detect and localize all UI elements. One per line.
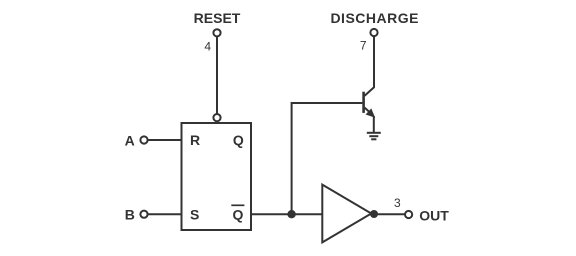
junction dot at buffer output bbox=[370, 210, 378, 218]
buffer U2 triangle bbox=[322, 185, 371, 243]
junction dot on Qbar wire bbox=[287, 210, 295, 218]
wire buffer to OUT bbox=[374, 213, 405, 215]
transistor Q1 emitter bbox=[365, 108, 372, 115]
wire Qbar to buffer bbox=[251, 213, 322, 215]
terminal DISCHARGE (pin 7) bbox=[370, 29, 377, 36]
svg-text:7: 7 bbox=[360, 39, 367, 53]
junction circle at flip-flop top bbox=[213, 114, 220, 121]
svg-text:RESET: RESET bbox=[194, 10, 241, 26]
wire B to S bbox=[148, 213, 182, 215]
transistor Q1 base bar bbox=[362, 92, 365, 113]
svg-text:R: R bbox=[190, 132, 200, 148]
svg-text:DISCHARGE: DISCHARGE bbox=[330, 10, 419, 26]
transistor Q1 collector bbox=[365, 36, 374, 95]
svg-text:3: 3 bbox=[394, 196, 401, 210]
terminal OUT (pin 3) bbox=[405, 211, 412, 218]
svg-text:4: 4 bbox=[204, 40, 211, 54]
terminal B bbox=[140, 211, 147, 218]
Qbar overbar bbox=[231, 204, 244, 206]
wire RESET vertical bbox=[216, 36, 218, 114]
svg-text:B: B bbox=[125, 207, 135, 223]
svg-text:Q: Q bbox=[233, 132, 244, 148]
terminal A bbox=[140, 136, 147, 143]
wire junction to transistor base bbox=[292, 103, 363, 214]
wire emitter to ground bbox=[373, 116, 375, 133]
terminal RESET (pin 4) bbox=[213, 29, 220, 36]
wire A to R bbox=[148, 139, 182, 141]
svg-text:A: A bbox=[125, 133, 135, 149]
svg-text:Q: Q bbox=[233, 207, 244, 223]
transistor Q1 emitter arrowhead bbox=[367, 109, 375, 117]
svg-text:S: S bbox=[190, 207, 199, 223]
ground symbol bbox=[367, 133, 381, 140]
flip-flop U1 box bbox=[182, 123, 252, 230]
svg-text:OUT: OUT bbox=[419, 207, 449, 223]
